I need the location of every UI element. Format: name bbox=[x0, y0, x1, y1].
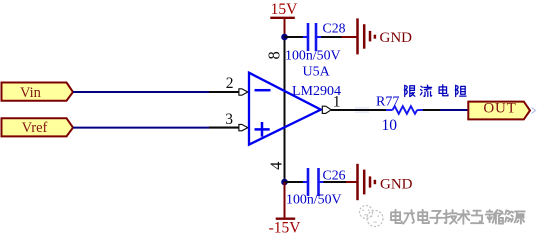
port Vref bbox=[2, 118, 74, 136]
svg-text:Vin: Vin bbox=[20, 85, 42, 101]
power symbol 15V bbox=[270, 1, 298, 35]
capacitor C26 bbox=[286, 168, 346, 208]
svg-text:3: 3 bbox=[225, 111, 233, 128]
与 bbox=[471, 211, 483, 223]
限 bbox=[405, 85, 415, 96]
力 bbox=[403, 210, 414, 223]
svg-text:15V: 15V bbox=[271, 1, 299, 18]
svg-text:C26: C26 bbox=[323, 168, 346, 183]
port Vin bbox=[2, 83, 74, 102]
label 限流电阻 (current-limit resistor) bbox=[405, 85, 466, 97]
流 bbox=[420, 85, 431, 96]
wire C26 to GND bbox=[324, 181, 347, 183]
子 bbox=[430, 211, 442, 223]
svg-text:Vref: Vref bbox=[22, 120, 48, 136]
svg-text:4: 4 bbox=[267, 162, 286, 170]
wire junction to C26 bbox=[285, 181, 304, 183]
pin 3 of U5A bbox=[209, 111, 248, 131]
svg-text:GND: GND bbox=[380, 30, 413, 46]
svg-text:R77: R77 bbox=[376, 94, 399, 109]
power ground GND bottom bbox=[358, 164, 413, 200]
pin 2 of U5A bbox=[209, 75, 248, 95]
svg-text:OUT: OUT bbox=[483, 101, 516, 117]
pin 8 label bbox=[265, 51, 284, 59]
svg-text:C28: C28 bbox=[323, 20, 346, 35]
svg-text:U5A: U5A bbox=[303, 65, 331, 80]
wire power rail vertical through op-amp bbox=[284, 35, 286, 182]
selection artifact on output wire bbox=[355, 108, 369, 112]
port OUT bbox=[468, 101, 530, 120]
wire Vref to pin3 bbox=[73, 127, 209, 129]
能 bbox=[498, 210, 510, 223]
wire Vin to pin2 bbox=[73, 91, 209, 93]
junction bottom node bbox=[281, 179, 288, 186]
pin 1 output of U5A bbox=[322, 93, 386, 113]
watermark logo circle bbox=[360, 206, 384, 227]
wire junction to -15V bbox=[284, 182, 286, 218]
wire C28 to GND bbox=[321, 36, 342, 38]
svg-text:GND: GND bbox=[380, 177, 413, 193]
svg-text:8: 8 bbox=[265, 51, 284, 59]
术 bbox=[457, 210, 469, 224]
wire stub artifact right of OUT bbox=[532, 108, 536, 114]
resistor R77 bbox=[376, 94, 440, 134]
svg-text:100n/50V: 100n/50V bbox=[285, 48, 341, 63]
wire R77 to OUT bbox=[440, 109, 468, 111]
阻 bbox=[456, 85, 466, 96]
svg-text:2: 2 bbox=[226, 75, 234, 92]
op-amp U5A bbox=[249, 65, 341, 145]
svg-text:1: 1 bbox=[333, 93, 341, 110]
源 bbox=[511, 211, 524, 223]
svg-text:10: 10 bbox=[382, 117, 398, 134]
wire junction to C28 bbox=[285, 36, 304, 38]
junction top node bbox=[281, 34, 288, 41]
power symbol -15V bbox=[269, 219, 302, 237]
svg-text:100n/50V: 100n/50V bbox=[286, 192, 342, 207]
power ground GND top bbox=[358, 18, 413, 54]
技 bbox=[444, 210, 457, 224]
电 bbox=[391, 210, 402, 223]
svg-text:-15V: -15V bbox=[269, 220, 302, 237]
pin 4 label bbox=[267, 162, 286, 170]
capacitor C28 bbox=[285, 20, 346, 63]
新 bbox=[486, 210, 498, 224]
电 bbox=[418, 210, 429, 223]
watermark text 电力电子技术与新能源 bbox=[391, 210, 525, 224]
电 bbox=[439, 85, 448, 96]
